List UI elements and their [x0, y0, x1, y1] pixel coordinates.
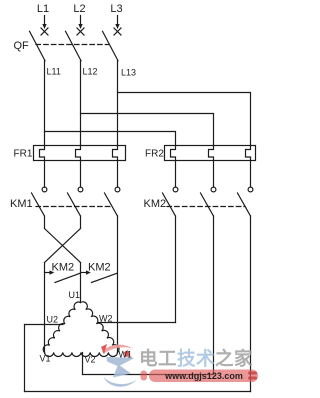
KM1 pole 3 fixed contact circle	[115, 187, 120, 192]
FR1 heater element pole 2	[76, 146, 81, 161]
svg-text:L11: L11	[47, 67, 61, 77]
svg-text:www.dgjs123.com: www.dgjs123.com	[164, 371, 243, 381]
KM2 aux contact b blade	[92, 273, 118, 282]
KM2 aux contact b terminal	[81, 272, 88, 274]
svg-text:W1: W1	[119, 350, 133, 360]
svg-text:FR1: FR1	[14, 149, 33, 160]
wire KM2 pole1 down	[175, 216, 177, 323]
motor winding right side (U1-W1)	[81, 302, 120, 353]
breaker QF pole 1 blade	[30, 31, 46, 60]
watermark banner	[141, 370, 259, 383]
KM2 pole 1 blade	[163, 193, 176, 216]
svg-text:L13: L13	[121, 68, 136, 78]
thermal relay FR1 box	[34, 146, 126, 161]
wire branch L12 to right column 2	[81, 114, 214, 146]
svg-text:U1: U1	[69, 290, 81, 300]
KM2 aux contact a terminal	[45, 272, 51, 274]
KM2 pole 2 fixed contact circle	[211, 187, 216, 192]
wire L11	[44, 61, 46, 146]
KM1 pole 2 fixed contact circle	[78, 187, 83, 192]
svg-text:V2: V2	[85, 355, 96, 365]
wire V2 to KM2 pole2	[83, 374, 214, 376]
KM1 pole 1 wire from FR1	[44, 161, 46, 188]
KM2 pole 3 fixed contact circle	[248, 187, 253, 192]
breaker QF linkage dashed	[36, 44, 109, 46]
svg-text:KM2: KM2	[144, 198, 167, 210]
KM1 pole 2 blade	[68, 193, 81, 216]
wire KM2 pole3 down	[250, 216, 252, 392]
motor winding left side (U1-V1)	[43, 302, 80, 352]
KM1 pole 3 wire from FR1	[117, 161, 119, 188]
wire U2 to left rail	[25, 324, 64, 326]
wire crossing phase swap line 2	[45, 229, 81, 263]
wire branch L13 to right column 3	[118, 93, 251, 146]
FR2 heater element pole 2	[209, 146, 214, 161]
wire L2 incoming arrow	[78, 16, 82, 30]
terminal x L1	[41, 28, 48, 35]
wire L1 incoming arrow	[42, 16, 46, 30]
svg-text:电工技术之家: 电工技术之家	[139, 348, 253, 369]
svg-text:KM2: KM2	[52, 262, 75, 274]
breaker QF pole 3 blade	[103, 31, 119, 60]
wire to V1	[44, 263, 46, 353]
KM2 pole 1 fixed contact circle	[173, 187, 178, 192]
KM2 pole 3 wire from FR2	[250, 161, 252, 188]
svg-text:L3: L3	[110, 3, 122, 15]
wire L12	[80, 61, 82, 146]
KM2 pole 2 wire from FR2	[213, 161, 215, 188]
terminal x L3	[114, 28, 121, 35]
svg-text:L1: L1	[37, 3, 49, 15]
wire KM1 pole1 down	[44, 216, 46, 229]
thermal relay FR2 box	[165, 146, 256, 161]
KM2 aux contact b arrow	[86, 270, 91, 274]
KM1 pole 1 blade	[32, 193, 45, 216]
wire KM1 pole2 down	[80, 216, 82, 229]
svg-text:V1: V1	[40, 354, 51, 364]
wire KM1 pole3 down to W1	[117, 216, 119, 353]
wire left rail down	[24, 325, 26, 392]
svg-text:QF: QF	[14, 40, 30, 52]
FR2 heater element pole 3	[246, 146, 251, 161]
watermark logo swoosh	[101, 344, 137, 387]
FR1 heater element pole 1	[40, 146, 45, 161]
FR1 heater element pole 3	[113, 146, 118, 161]
wire branch L11 to right column 1	[45, 132, 176, 146]
KM2 pole 2 blade	[201, 193, 214, 216]
KM1 linkage dashed	[36, 206, 112, 208]
wire crossing phase swap line 1	[45, 229, 81, 263]
svg-text:U2: U2	[47, 315, 59, 325]
svg-text:FR2: FR2	[145, 149, 164, 160]
KM1 pole 3 blade	[105, 193, 118, 216]
svg-text:L2: L2	[73, 3, 85, 15]
wire bottom rail to KM2 pole3	[25, 391, 251, 393]
wire KM2 pole2 down	[213, 216, 215, 375]
wire V2 leg down	[82, 353, 84, 375]
KM2 pole 3 blade	[238, 193, 251, 216]
wire W2 to KM2 pole1	[98, 322, 176, 324]
KM1 pole 1 fixed contact circle	[42, 187, 47, 192]
svg-text:KM1: KM1	[10, 198, 33, 210]
svg-text:KM2: KM2	[88, 262, 111, 274]
KM2 aux contact a blade	[55, 273, 80, 282]
svg-text:L12: L12	[83, 67, 98, 77]
KM2 pole 1 wire from FR2	[175, 161, 177, 188]
terminal x L2	[77, 28, 84, 35]
breaker QF pole 2 blade	[66, 31, 82, 60]
KM2 aux contact a arrow	[50, 270, 55, 274]
FR2 heater element pole 1	[171, 146, 176, 161]
KM2 linkage dashed	[167, 206, 245, 208]
KM1 pole 2 wire from FR1	[80, 161, 82, 188]
wire to U1 apex	[80, 263, 82, 303]
motor winding bottom side (V1-W1)	[45, 353, 118, 357]
wire L3 incoming arrow	[115, 16, 119, 30]
wire L13	[117, 61, 119, 146]
